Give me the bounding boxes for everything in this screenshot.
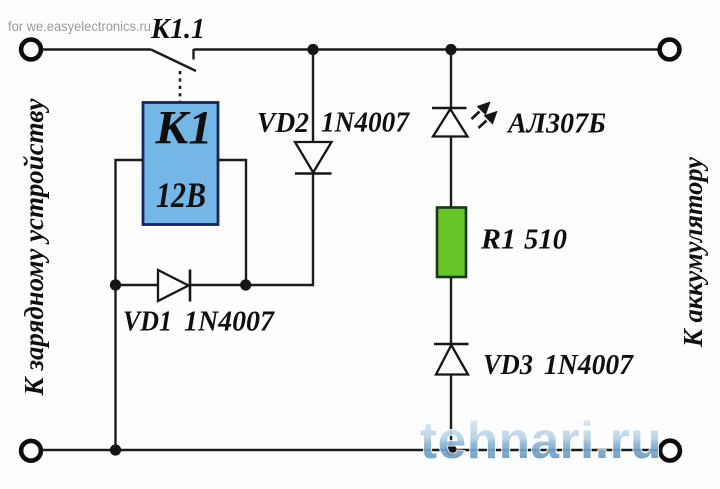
wire K1 left stub [116,160,144,285]
wire VD2 branch vertical bottom [312,174,314,287]
junction node LED/top rail [445,44,456,55]
junction node bottom LED branch [445,444,456,455]
svg-text:for we.easyelectronics.ru: for we.easyelectronics.ru [8,18,151,34]
svg-text:К1: К1 [154,102,212,155]
junction node VD1 left [110,279,121,290]
wire VD3 to bottom rail [450,375,452,451]
svg-text:510: 510 [524,224,567,256]
junction node VD2/top rail [307,44,318,55]
wire LED branch top [450,50,452,109]
svg-text:АЛ307Б: АЛ307Б [506,108,606,140]
resistor R1 [437,208,466,278]
terminal bottom-right [660,441,680,461]
svg-text:12В: 12В [156,175,206,215]
wire R1 to VD3 [450,277,452,344]
svg-text:VD1: VD1 [123,306,172,338]
svg-text:VD2: VD2 [257,107,309,139]
wire LED to R1 [450,137,452,209]
switch K1.1 blade [151,50,196,72]
terminal top-right [660,40,680,60]
wire top rail left segment [42,48,151,50]
relay coil K1 [143,102,218,225]
terminal top-left [21,40,41,60]
terminal bottom-left [21,441,41,461]
wire K1 right stub [218,160,246,285]
svg-text:К зарядному устройству: К зарядному устройству [19,98,49,397]
diode VD1 [158,270,190,302]
svg-text:tehnari.ru: tehnari.ru [420,412,662,470]
svg-text:1N4007: 1N4007 [544,349,634,381]
svg-text:1N4007: 1N4007 [184,306,275,338]
wire left trunk to bottom rail [114,285,116,450]
svg-text:1N4007: 1N4007 [321,107,410,139]
svg-text:К1.1: К1.1 [150,13,205,45]
wire top rail right segment [194,48,660,50]
junction node VD1 right / K1 right trunk [240,279,251,290]
dotted actuator link K1.1 to coil [179,71,182,101]
switch K1.1 fixed contact [192,49,194,60]
junction node bottom-left trunk [110,444,121,455]
svg-text:VD3: VD3 [483,349,533,381]
wire VD1 horizontal rail [116,284,315,286]
LED АЛ307Б [432,104,496,137]
wire bottom rail [42,449,659,451]
LED emission arrows [472,104,496,129]
svg-text:К аккумулятору: К аккумулятору [678,156,708,348]
svg-text:R1: R1 [480,224,516,256]
diode VD3 [434,344,469,375]
wire VD2 branch vertical top [312,50,314,143]
diode VD2 [295,142,332,174]
